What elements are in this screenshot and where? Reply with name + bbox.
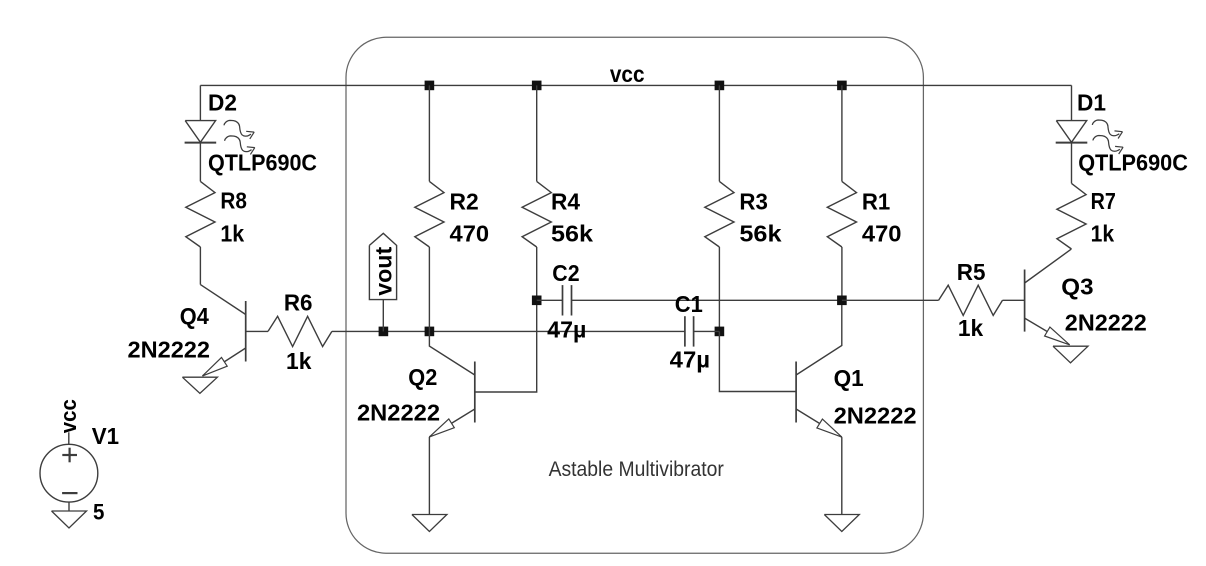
wire R5 to Q3 base (1003, 299, 1025, 301)
wire R2 to node A (428, 247, 430, 331)
transistor Q2 (429, 300, 536, 437)
wire R4 to C2 node (536, 247, 538, 300)
svg-text:R7: R7 (1091, 188, 1116, 214)
svg-text:QTLP690C: QTLP690C (1078, 150, 1188, 176)
svg-text:vout: vout (370, 246, 396, 295)
svg-text:V1: V1 (92, 423, 119, 449)
diode D2 (LED) (185, 121, 215, 143)
svg-text:Q3: Q3 (1061, 274, 1093, 300)
wire Q2 emitter to ground (428, 437, 430, 515)
svg-text:R8: R8 (220, 187, 247, 213)
svg-text:C2: C2 (552, 260, 579, 286)
wire C2 to R1 (node B) (572, 299, 842, 301)
wire R3 to C1 node (718, 247, 720, 331)
svg-text:Q4: Q4 (180, 303, 209, 329)
svg-text:QTLP690C: QTLP690C (208, 150, 317, 176)
resistor R1 (827, 181, 856, 247)
svg-text:1k: 1k (1091, 221, 1115, 247)
wire R1 to node B (841, 247, 843, 300)
node vcc/R2 (425, 81, 435, 91)
capacitor C1 (684, 316, 686, 346)
node R2/Q2 collector (425, 327, 435, 337)
resistor R5 (939, 285, 1003, 315)
svg-text:56k: 56k (551, 221, 593, 247)
resistor R6 (268, 316, 332, 346)
svg-text:Q2: Q2 (408, 364, 437, 390)
subcircuit box (346, 37, 923, 553)
resistor R4 (522, 181, 551, 247)
LED light arrows D2 (224, 120, 251, 136)
node C1/R3/Q1 base (715, 327, 725, 337)
ground Q1 (824, 515, 859, 532)
wire vcc to R4 (536, 85, 538, 181)
svg-text:Astable Multivibrator: Astable Multivibrator (549, 458, 724, 481)
wire vcc to R3 (718, 85, 720, 181)
svg-text:1k: 1k (220, 221, 244, 247)
wire R6 to C1 (node A) (332, 330, 685, 332)
ground Q2 (412, 515, 447, 532)
svg-text:2N2222: 2N2222 (834, 403, 917, 429)
resistor R2 (415, 181, 444, 247)
transistor Q1 (719, 300, 841, 437)
node vcc/R4 (532, 81, 542, 91)
svg-text:56k: 56k (739, 221, 781, 247)
svg-text:2N2222: 2N2222 (1065, 309, 1147, 335)
ground Q4 (182, 377, 217, 393)
svg-text:R2: R2 (450, 189, 479, 215)
wire vcc to D2 anode (199, 85, 201, 120)
wire D1 to R7 (1071, 143, 1073, 184)
svg-text:47µ: 47µ (670, 346, 710, 372)
transistor Q3 (1025, 249, 1072, 345)
svg-text:Q1: Q1 (834, 365, 864, 391)
svg-text:470: 470 (450, 221, 490, 247)
capacitor C2 (537, 299, 563, 301)
svg-text:1k: 1k (286, 348, 312, 374)
wire vcc to R2 (428, 85, 430, 181)
ground V1 (52, 511, 87, 528)
svg-text:R6: R6 (284, 290, 313, 316)
node vcc/R3 (715, 81, 725, 91)
node R1/C2/R5 (837, 296, 847, 306)
svg-text:2N2222: 2N2222 (128, 336, 211, 362)
wire D2 to R8 (199, 143, 201, 182)
diode D1 (LED) (1056, 121, 1086, 143)
voltage source V1 (40, 432, 98, 511)
wire vcc to D1 anode (1071, 85, 1073, 120)
svg-text:D2: D2 (208, 90, 237, 116)
svg-text:R5: R5 (957, 259, 986, 285)
net flag vout (369, 233, 396, 299)
node C2/R4/Q2 base (532, 296, 542, 306)
wire R8 to Q4 collector (199, 247, 201, 285)
svg-text:vcc: vcc (56, 399, 81, 433)
svg-text:1k: 1k (958, 315, 983, 341)
svg-text:R3: R3 (739, 189, 768, 215)
resistor R7 (1057, 183, 1086, 249)
wire node B to R5 (842, 299, 939, 301)
svg-text:5: 5 (93, 499, 104, 524)
svg-text:D1: D1 (1077, 90, 1106, 116)
svg-text:R1: R1 (862, 189, 891, 215)
transistor Q4 (200, 285, 268, 376)
svg-text:47µ: 47µ (547, 317, 586, 343)
node vout tap (379, 327, 389, 337)
resistor R3 (705, 181, 734, 247)
svg-text:470: 470 (862, 221, 902, 247)
wire Q1 emitter to ground (841, 437, 843, 514)
node vcc/R1 (837, 81, 847, 91)
ground Q3 (1053, 346, 1088, 363)
svg-text:R4: R4 (551, 189, 580, 215)
wire vcc to R1 (841, 85, 843, 181)
LED light arrows D1 (1092, 120, 1119, 136)
wire vcc rail (200, 84, 1071, 86)
svg-text:2N2222: 2N2222 (357, 399, 440, 425)
svg-text:C1: C1 (675, 291, 703, 317)
resistor R8 (186, 181, 215, 247)
svg-text:vcc: vcc (610, 61, 645, 87)
